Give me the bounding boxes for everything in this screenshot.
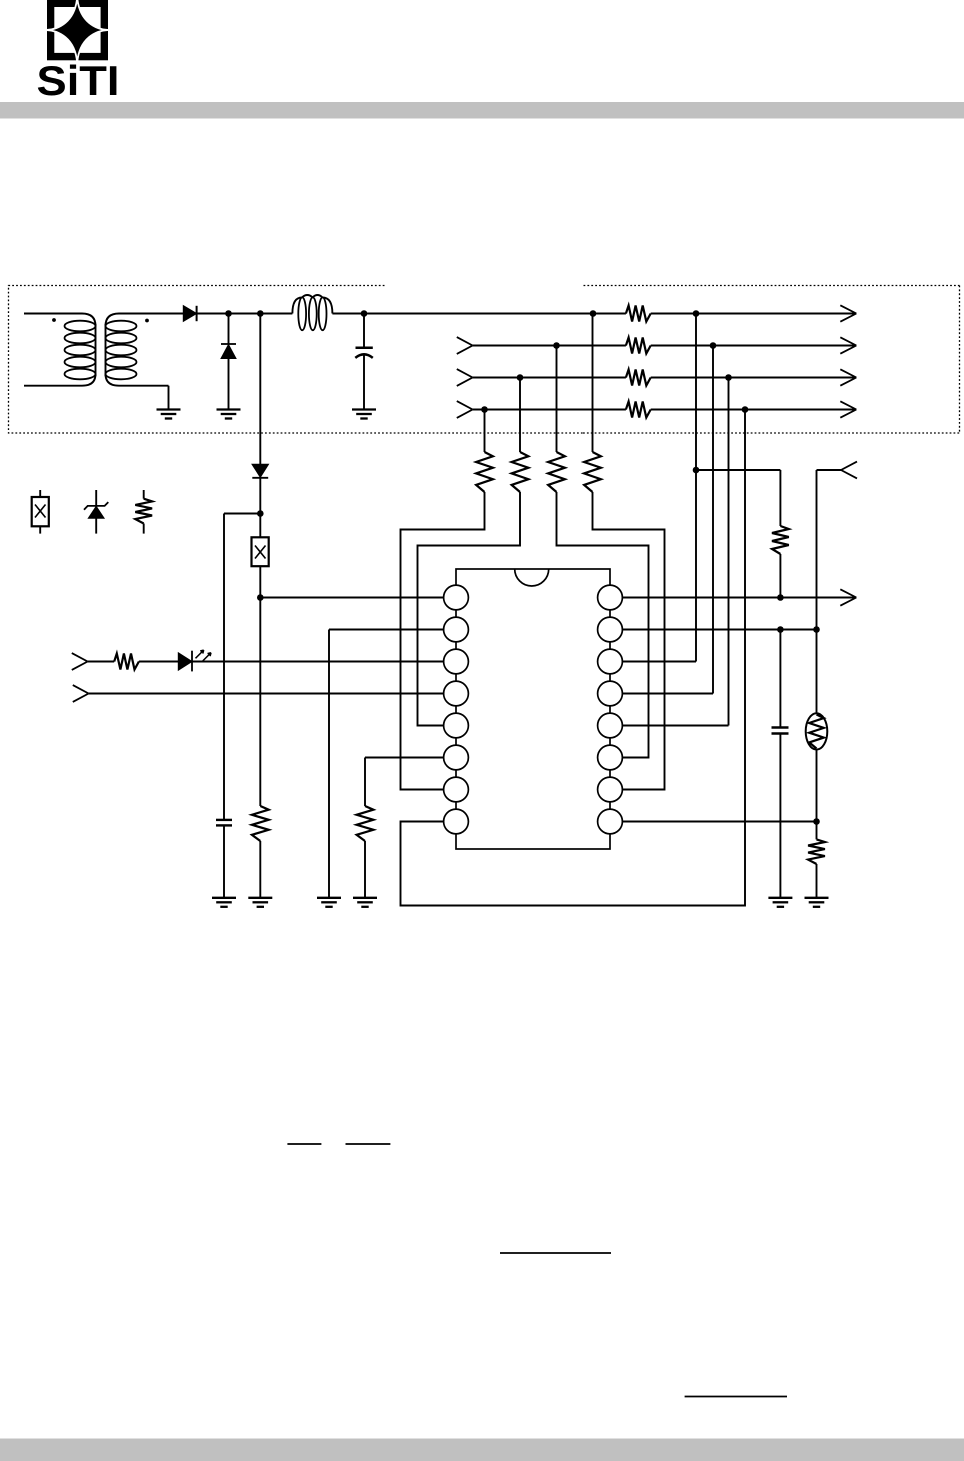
- wire R10 branch: [259, 598, 261, 807]
- resistor R7 (to pin 5): [512, 452, 529, 492]
- wire C2 branch: [224, 513, 260, 515]
- IC U1 body: [456, 569, 610, 849]
- arrow line 3 output: [840, 369, 856, 377]
- wire pin 13 stub: [622, 693, 713, 695]
- wire VCC rail (D1 cathode to inductor): [196, 313, 292, 315]
- junction line 3 left dropper: [517, 374, 524, 381]
- wire line4 dropper to R8: [484, 410, 486, 453]
- wire IC pin 6 to R12: [365, 757, 444, 759]
- resistor R2 (line 2 series): [626, 338, 651, 354]
- junction VCC / fuse branch: [257, 310, 264, 317]
- junction pin9 / RT1: [813, 818, 820, 825]
- resistor R3 (line 3 series): [626, 370, 651, 386]
- wire signal line 4: [473, 409, 626, 411]
- dashed enclosure right (output connector block): [583, 286, 960, 434]
- junction riser / pull-up R9: [693, 467, 700, 474]
- wire pin 9 line: [622, 821, 817, 823]
- wire line3 dropper to R7: [519, 378, 521, 453]
- wire IC pin 2 to ground line: [329, 629, 444, 631]
- ground (R13): [805, 897, 829, 899]
- junction pin15 / C3: [777, 626, 784, 633]
- legend zener diode symbol: [95, 490, 97, 534]
- polarity dot secondary: [145, 319, 149, 323]
- junction line 2 right riser: [710, 342, 717, 349]
- footer bar: [0, 1439, 964, 1461]
- resistor R1 (VCC rail series): [626, 306, 651, 322]
- IC U1 pin 7 (left): [444, 777, 469, 802]
- IC U1 pin 8 (left): [444, 809, 469, 834]
- connector input line 3: [457, 369, 473, 377]
- wire riser pin 12a (line3): [728, 378, 730, 726]
- IC U1 pin 3 (left): [444, 649, 469, 674]
- junction line 4 left dropper: [481, 406, 488, 413]
- ground (C3): [768, 897, 792, 899]
- ground (pin 2 line): [317, 897, 341, 899]
- wire R11 to LED: [139, 661, 178, 663]
- arrow line 2 output: [840, 337, 856, 345]
- wire VCC rail (inductor to resistor): [332, 313, 626, 315]
- IC U1 pin 4 (left): [444, 681, 469, 706]
- wire R8 to IC pin 7: [401, 492, 485, 790]
- wire pin 14 stub: [622, 661, 696, 663]
- junction VCC / C1: [361, 310, 368, 317]
- connector input line 2: [457, 337, 473, 345]
- connector input B: [73, 685, 89, 693]
- ground (R10): [248, 897, 272, 899]
- junction F1 / pin1 wire: [257, 594, 264, 601]
- capacitor C2 (to ground): [216, 819, 232, 821]
- wire input C to pin 15 line: [817, 469, 842, 471]
- resistor R8 (to pin 7): [476, 452, 493, 492]
- junction line 3 right riser: [725, 374, 732, 381]
- LED D4: [178, 653, 192, 670]
- IC U1 pin 11 (right): [598, 745, 623, 770]
- wire RT1 to R13: [816, 822, 818, 840]
- wire secondary return to ground: [168, 386, 170, 410]
- wire F1 to IC pin 1: [260, 597, 444, 599]
- legend resistor symbol: [143, 490, 145, 499]
- wire R12 to ground: [364, 841, 366, 898]
- IC U1 pin 1 (left): [444, 585, 469, 610]
- wire IC pin 16 to arrow: [622, 597, 857, 599]
- resistor R6 (to pin 12): [548, 452, 565, 492]
- logo SiTI: [37, 0, 120, 104]
- arrow pin 16 output: [840, 589, 856, 597]
- legend fuse symbol: [39, 490, 41, 497]
- ground (R12): [353, 897, 377, 899]
- wire pin 12 stub: [622, 725, 729, 727]
- fuse F1 (boxed element): [259, 514, 261, 538]
- junction D3 / C2 branch: [257, 510, 264, 517]
- underline mid: [500, 1252, 611, 1254]
- IC U1 pin 2 (left): [444, 617, 469, 642]
- wire signal line 2: [473, 345, 626, 347]
- wire riser pin 13 (line2): [712, 346, 714, 694]
- resistor R4 (line 4 series): [626, 402, 651, 418]
- wire R6 to IC pin 12: [557, 492, 649, 758]
- ground (D2): [217, 408, 241, 410]
- junction R9 / pin16 line: [777, 594, 784, 601]
- connector input line 4: [457, 401, 473, 409]
- junction line 4 right riser: [742, 406, 749, 413]
- wire riser pin 14 (line1): [695, 314, 697, 662]
- resistor R9 (pull-up): [772, 526, 789, 554]
- svg-text:SiTI: SiTI: [37, 57, 120, 104]
- wire R9 to pin 16 line: [779, 554, 781, 598]
- wire line2 dropper to R6: [556, 346, 558, 453]
- ground (C1): [352, 408, 376, 410]
- diode D2 (clamp, cathode up): [221, 343, 236, 345]
- resistor R10 (to ground): [252, 806, 269, 841]
- wire VCC dropper to R5: [592, 314, 594, 453]
- resistor R12 (pin 6 to ground): [357, 806, 374, 841]
- junction line 2 left dropper: [553, 342, 560, 349]
- capacitor C3 (to ground): [779, 630, 781, 728]
- IC U1 pin 16 (right): [598, 585, 623, 610]
- arrow VCC output: [840, 305, 856, 313]
- header bar: [0, 102, 964, 119]
- transformer T1 primary winding: [24, 314, 96, 386]
- resistor R11 (input series): [114, 654, 139, 670]
- wire IC pin 15 line: [622, 629, 817, 631]
- wire input B to IC pin 4: [89, 693, 445, 695]
- capacitor C1 (polarized, to ground): [363, 314, 365, 347]
- ground (transformer secondary): [157, 408, 181, 410]
- diode D1 (series rectifier): [183, 306, 196, 322]
- ground (C2): [212, 897, 236, 899]
- transformer T1 secondary winding: [106, 314, 184, 386]
- wire R10 to ground: [259, 841, 261, 898]
- IC U1 pin 6 (left): [444, 745, 469, 770]
- IC U1 pin 15 (right): [598, 617, 623, 642]
- polarity dot primary: [52, 318, 56, 322]
- resistor R5 (to pin 10): [584, 452, 601, 492]
- wire pull-up branch: [696, 469, 780, 471]
- connector input A: [72, 653, 88, 661]
- diode D3 (series, cathode down): [252, 464, 269, 477]
- wire R13 to ground: [816, 864, 818, 898]
- wire VCC rail (R1 to arrow): [651, 313, 857, 315]
- connector input C: [841, 462, 857, 470]
- overbar CS: [287, 1143, 321, 1145]
- dashed enclosure left (AC-DC front-end block): [9, 286, 584, 434]
- IC U1 pin 10 (right): [598, 777, 623, 802]
- wire signal line 3: [473, 377, 626, 379]
- overbar WR: [346, 1143, 391, 1145]
- IC U1 pin 5 (left): [444, 713, 469, 738]
- wire VCC to D3: [259, 314, 261, 465]
- IC U1 pin 9 (right): [598, 809, 623, 834]
- junction pin15 / RT1: [813, 626, 820, 633]
- underline low: [685, 1396, 787, 1398]
- inductor L1 (filter choke): [292, 295, 332, 330]
- wire R7 to IC pin 5: [418, 492, 521, 726]
- junction VCC / R5 dropper: [590, 310, 597, 317]
- arrow line 4 output: [840, 401, 856, 409]
- junction VCC / pin11 riser: [693, 310, 700, 317]
- wire R5 to IC pin 10: [593, 492, 665, 790]
- wire LED to IC pin 3: [192, 661, 444, 663]
- IC U1 pin 14 (right): [598, 649, 623, 674]
- wire D2 branch: [228, 314, 230, 345]
- resistor R13 (to ground): [808, 839, 825, 864]
- wire input A to R11: [88, 661, 115, 663]
- junction VCC / D2: [225, 310, 232, 317]
- wire riser line4 to bottom rail: [401, 410, 746, 906]
- IC U1 pin 13 (right): [598, 681, 623, 706]
- IC U1 pin 12 (right): [598, 713, 623, 738]
- thermistor RT1 (in ellipse): [816, 630, 818, 714]
